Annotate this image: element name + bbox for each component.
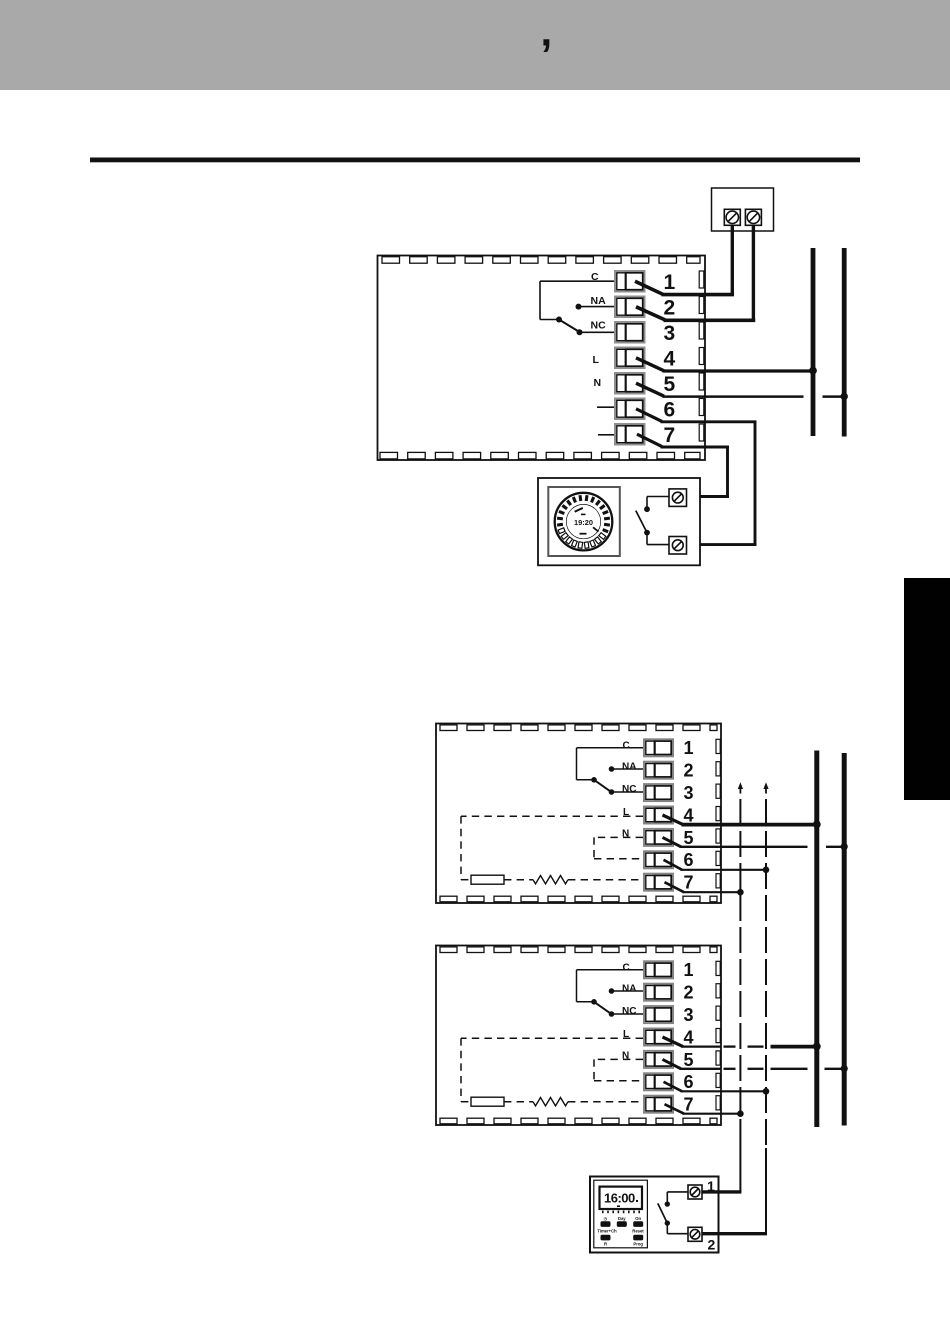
svg-text:Prog: Prog	[633, 1242, 643, 1247]
terminal M1-3	[615, 322, 645, 343]
svg-text:4: 4	[664, 347, 676, 370]
section rule	[90, 158, 860, 163]
digital timer panel	[594, 1180, 648, 1248]
mains bus N (M2/M3)	[842, 753, 847, 1126]
digital timer switch lever	[658, 1203, 668, 1223]
relay contact C wire (M3)	[577, 970, 644, 1002]
svg-text:NC: NC	[591, 320, 607, 332]
timer feed line 2 (dashed vertical)	[765, 799, 767, 1234]
svg-text:1: 1	[684, 960, 694, 980]
svg-text:19:20: 19:20	[574, 518, 593, 527]
svg-text:NC: NC	[622, 784, 636, 795]
svg-text:On: On	[635, 1216, 641, 1221]
terminal M1-5	[615, 373, 645, 394]
sensor dashed circuit N (M2)	[594, 837, 643, 858]
timer dial inner circle	[566, 504, 600, 538]
arrow up feed 1	[738, 782, 743, 793]
timer IP internal switch upper contact	[644, 497, 669, 513]
boiler M3 bottom perforation	[440, 1118, 717, 1124]
svg-text:1: 1	[664, 271, 676, 294]
svg-text:2: 2	[708, 1237, 716, 1253]
timer IP screw 2	[669, 537, 687, 555]
terminal 7 stub (M1)	[598, 434, 614, 436]
digital timer LCD	[600, 1187, 643, 1209]
svg-text:NA: NA	[622, 983, 636, 994]
timer buttons row 2	[601, 1235, 644, 1241]
wire M3-7 to feed 1	[665, 1104, 744, 1117]
boiler M3 outline	[436, 946, 721, 1126]
wire M2-4 (L) to bus	[663, 815, 821, 828]
NA contact dot and wire (M2)	[609, 766, 643, 772]
anticipator resistor box (M3)	[471, 1097, 504, 1106]
mains neutral bus N (M1)	[842, 248, 847, 437]
svg-text:2: 2	[664, 296, 676, 319]
analog timer IP box	[538, 478, 700, 565]
svg-text:3: 3	[664, 322, 676, 345]
svg-text:6: 6	[684, 1072, 694, 1092]
NC contact dot and wire (M1)	[577, 329, 615, 335]
digital timer screw 2	[688, 1227, 702, 1241]
terminal numbers 1-7 (M2)	[684, 738, 694, 892]
chapter tab black	[904, 578, 950, 800]
wire M2-6 to feed 2	[664, 860, 770, 873]
heating resistor zigzag (M3)	[533, 1098, 568, 1106]
sensor dashed circuit L (M2)	[461, 816, 643, 880]
contact labels C NA NC L N (M3)	[622, 962, 636, 1061]
terminal numbers 1-7 (M1)	[664, 271, 676, 447]
digital timer screw 1	[688, 1185, 702, 1199]
relay switch lever (M1)	[559, 320, 580, 333]
wire M1-2 to TA screw2	[636, 225, 755, 322]
digital timer switch lower contact	[665, 1220, 688, 1233]
wire M3-5 (N) to bus (dashed crossing, gap at L bus)	[663, 1059, 848, 1072]
timer buttons row 1	[601, 1221, 644, 1227]
svg-text:2: 2	[684, 983, 694, 1003]
svg-text:5: 5	[684, 1050, 694, 1070]
boiler M2 top perforation	[440, 725, 717, 731]
arrow up feed 2	[763, 782, 768, 793]
wire screw2 to feed 2	[702, 1232, 767, 1235]
terminal M3-1	[644, 961, 673, 978]
svg-text:7: 7	[684, 1095, 694, 1115]
svg-text:7: 7	[664, 424, 676, 447]
contact labels C NA NC L N (M2)	[622, 740, 636, 839]
heating resistor zigzag (M2)	[533, 876, 568, 884]
page header gray band	[0, 0, 950, 90]
relay contact C wire (M1)	[540, 281, 614, 319]
dashed link resistor to terminal 7 (M2)	[568, 879, 643, 881]
terminal M1-6	[615, 399, 645, 420]
svg-text:N: N	[594, 377, 602, 389]
contact labels C NA NC L N (M1)	[591, 271, 607, 389]
terminal M1-4	[615, 348, 645, 369]
timer dial outer ring	[555, 493, 613, 551]
svg-text:Day: Day	[618, 1216, 626, 1221]
svg-text:4: 4	[684, 805, 694, 825]
svg-text:2: 2	[684, 761, 694, 781]
wire M2-5 (N) to bus, gap at L bus	[663, 837, 848, 850]
relay switch lever (M3)	[594, 1002, 611, 1014]
svg-text:7: 7	[684, 873, 694, 893]
terminal M3-3	[644, 1006, 673, 1023]
mains line bus L (M1)	[811, 248, 816, 436]
terminal M2-1	[644, 739, 673, 756]
timer IP internal switch lower contact	[644, 530, 669, 545]
wire M1-4 (L) to bus	[636, 358, 817, 375]
terminal M1-1	[615, 271, 645, 292]
svg-text:NA: NA	[591, 295, 607, 307]
timer dial tick segments	[557, 495, 610, 548]
NC contact dot and wire (M3)	[609, 1011, 643, 1017]
wire M3-4 (L) to bus (dashed crossing)	[663, 1037, 821, 1050]
terminal numbers 1-7 (M3)	[684, 960, 694, 1114]
wire M1-5 (N) to bus, gap at L bus	[636, 383, 848, 400]
room thermostat TA box	[712, 188, 774, 231]
svg-text:6: 6	[664, 398, 676, 421]
NC contact dot and wire (M2)	[609, 789, 643, 795]
sensor dashed circuit L (M3)	[461, 1038, 643, 1102]
anticipator resistor box (M2)	[471, 875, 504, 884]
terminal M2-3	[644, 784, 673, 801]
terminal 6 stub (M1)	[597, 406, 614, 408]
terminal M2-2	[644, 762, 673, 779]
svg-text:5: 5	[664, 373, 676, 396]
terminal M2-4	[644, 807, 673, 824]
dashed link resistor to terminal 7 (M3)	[568, 1101, 643, 1103]
relay contact C wire (M2)	[577, 748, 644, 780]
LCD small marks	[617, 1200, 638, 1207]
terminal M2-5	[644, 829, 673, 846]
wire M3-6 to feed 2	[664, 1082, 770, 1095]
svg-text:3: 3	[684, 783, 694, 803]
svg-text:1: 1	[684, 738, 694, 758]
terminal M3-7	[644, 1096, 673, 1113]
boiler M2 outline	[436, 724, 721, 904]
boiler M1 bottom perforation	[380, 452, 700, 459]
sensor dashed circuit N (M3)	[594, 1059, 643, 1080]
terminal M3-4	[644, 1029, 673, 1046]
svg-text:16:00: 16:00	[604, 1191, 635, 1206]
svg-text:5: 5	[684, 828, 694, 848]
terminal M1-2	[615, 297, 645, 318]
mains bus L (M2/M3)	[814, 751, 819, 1128]
terminal M2-6	[644, 851, 673, 868]
terminal M3-5	[644, 1051, 673, 1068]
timer feed line 1 (dashed vertical)	[739, 799, 741, 1192]
relay switch pivot (M1)	[556, 317, 562, 323]
relay switch pivot (M2)	[591, 777, 597, 783]
svg-text:Timer+Ch: Timer+Ch	[597, 1229, 617, 1234]
svg-text:◷: ◷	[604, 1216, 608, 1221]
LCD day scale	[602, 1211, 640, 1214]
timer button labels row 2	[604, 1242, 643, 1247]
wire M1-1 to TA screw1	[635, 225, 734, 296]
svg-text:NA: NA	[622, 761, 636, 772]
dashed link to heating resistor (M2)	[504, 879, 533, 881]
terminal M2-7	[644, 874, 673, 891]
svg-text:,: ,	[541, 8, 553, 55]
dashed link to heating resistor (M3)	[504, 1101, 533, 1103]
terminal M3-6	[644, 1073, 673, 1090]
TA screw 2	[745, 209, 761, 225]
svg-text:3: 3	[684, 1005, 694, 1025]
wire M1-6 to timer IP screw2	[636, 409, 757, 545]
wire M1-7 to timer IP screw1	[637, 434, 729, 496]
terminal M3-2	[644, 984, 673, 1001]
NA contact dot and wire (M3)	[609, 988, 643, 994]
digital timer switch upper contact	[665, 1192, 688, 1207]
svg-text:C: C	[623, 962, 630, 973]
svg-text:C: C	[623, 740, 630, 751]
wire M2-7 to feed 1	[665, 882, 744, 895]
boiler M1 right perforation	[699, 271, 704, 441]
wire screw1 to feed 1	[702, 1190, 741, 1193]
svg-text:R: R	[604, 1242, 607, 1247]
svg-text:4: 4	[684, 1027, 694, 1047]
relay switch lever (M2)	[594, 780, 611, 792]
timer IP screw 1	[669, 489, 687, 507]
boiler M3 right perforation	[716, 961, 720, 1110]
boiler M1 top perforation	[382, 257, 700, 264]
boiler M2 bottom perforation	[440, 896, 717, 902]
svg-text:NC: NC	[622, 1006, 636, 1017]
boiler M3 top perforation	[440, 947, 717, 953]
svg-text:Reset: Reset	[632, 1229, 644, 1234]
NA contact dot and wire (M1)	[576, 304, 615, 310]
timer IP internal switch lever	[636, 511, 647, 533]
relay switch pivot (M3)	[591, 999, 597, 1005]
digital timer IP box	[590, 1177, 719, 1253]
timer dial frame	[548, 487, 620, 556]
timer dial small markings	[574, 507, 599, 535]
boiler M2 right perforation	[716, 739, 720, 888]
svg-text:L: L	[593, 354, 600, 366]
TA screw 1	[724, 209, 740, 225]
timer button labels row 1	[604, 1216, 642, 1221]
boiler M1 outline	[378, 256, 706, 461]
timer mid labels	[597, 1229, 644, 1234]
terminal M1-7	[615, 424, 645, 445]
svg-text:6: 6	[684, 850, 694, 870]
